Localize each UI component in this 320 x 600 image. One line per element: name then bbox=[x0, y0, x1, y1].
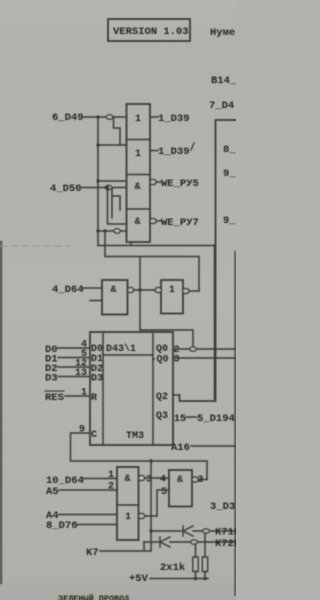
vertical bus x98 bbox=[97, 117, 99, 246]
svg-text:K7: K7 bbox=[86, 547, 99, 559]
wire 6_D49 to gate1 bbox=[84, 116, 127, 118]
scan edge line left bbox=[0, 242, 2, 583]
wire A5 pin2 bbox=[59, 489, 117, 491]
svg-text:B14_: B14_ bbox=[211, 75, 236, 87]
wire D2 pin12 bbox=[58, 366, 90, 368]
junction dot r1 rail bbox=[194, 577, 198, 581]
svg-text:&: & bbox=[135, 182, 141, 193]
wire NOT out to pin5 bbox=[145, 490, 169, 516]
wire 4_D50 to gate3 input b bbox=[82, 187, 127, 189]
svg-text:&: & bbox=[177, 475, 183, 486]
svg-text:C: C bbox=[91, 430, 97, 441]
svg-text:9_: 9_ bbox=[223, 168, 236, 180]
svg-text:K72Б: K72Б bbox=[215, 538, 236, 550]
svg-text:3: 3 bbox=[174, 355, 180, 366]
branch wire to gate4 input a bbox=[108, 188, 127, 225]
junction dot gate3 bbox=[96, 179, 99, 182]
connector ellipse on K72 wire bbox=[191, 540, 198, 544]
svg-text:2x1k: 2x1k bbox=[160, 562, 185, 574]
connector ellipse on 4_D50 wire bbox=[105, 185, 112, 189]
bottom AND output bubble bbox=[138, 475, 144, 480]
wire K7 to K72 line bbox=[100, 542, 151, 551]
connector ellipse on Q0 wire bbox=[190, 347, 197, 351]
wire under stack to right vertical bbox=[98, 245, 215, 247]
junction dot 4_D50 branch bbox=[106, 186, 109, 189]
junction dot r2 rail bbox=[203, 577, 207, 581]
latch NAND input b stub bbox=[90, 300, 102, 302]
NOT output bubble bottom bbox=[138, 513, 144, 518]
svg-text:Q0: Q0 bbox=[156, 344, 168, 355]
fold dashed line bbox=[0, 245, 70, 247]
gate4 output bubble bbox=[150, 218, 156, 223]
svg-text:5_D194: 5_D194 bbox=[197, 413, 235, 425]
long vertical wire right bbox=[214, 246, 216, 400]
svg-text:-Q0: -Q0 bbox=[151, 355, 169, 366]
diode D2 bbox=[160, 537, 170, 547]
wire gate4 input b bbox=[98, 230, 127, 232]
svg-text:VERSION 1.03: VERSION 1.03 bbox=[113, 26, 189, 38]
junction dot C net bbox=[149, 459, 152, 462]
wire 8_D76 to NOT cell bbox=[77, 524, 117, 526]
junction dot K71 start bbox=[149, 529, 152, 532]
+5V rail bbox=[150, 578, 208, 580]
svg-text:A16: A16 bbox=[171, 442, 190, 454]
wire jog gate3 to gate4 bbox=[112, 188, 120, 219]
paper background bbox=[0, 0, 236, 600]
junction dot on latch wire bbox=[138, 288, 141, 291]
svg-text:&: & bbox=[135, 217, 141, 228]
branch from C net down to K71 line bbox=[150, 461, 152, 551]
svg-text:ТМ3: ТМ3 bbox=[126, 431, 144, 442]
wire gate2 input bbox=[98, 144, 127, 146]
latch NOT input bubble bbox=[155, 287, 161, 292]
svg-text:R: R bbox=[91, 393, 97, 404]
wire C pin9 from below-left bbox=[71, 433, 208, 480]
svg-text:1: 1 bbox=[169, 285, 175, 296]
wire D1 pin5 bbox=[58, 357, 90, 359]
junction dot gate2 bbox=[96, 143, 99, 146]
svg-text:9: 9 bbox=[79, 425, 85, 436]
wire A16 to right edge bbox=[191, 445, 236, 447]
junction dot 6_D49/bus bbox=[96, 115, 99, 118]
svg-text:4_D50: 4_D50 bbox=[50, 183, 82, 195]
svg-text:D3: D3 bbox=[91, 374, 103, 385]
junction dot gate4 bbox=[96, 229, 99, 232]
latch feedback top wire bbox=[105, 231, 199, 291]
svg-text:A5: A5 bbox=[46, 486, 59, 498]
svg-text:9_: 9_ bbox=[223, 215, 236, 227]
gate3 output bubble bbox=[150, 179, 156, 184]
TM3 designator divider bbox=[103, 332, 153, 445]
gate IC D38 stack box bbox=[127, 104, 151, 242]
output wire gate4 bbox=[156, 220, 161, 222]
output wire gate3 bbox=[156, 181, 161, 183]
right AND output wire bbox=[198, 479, 207, 481]
latch NOT output wire to feedback bbox=[189, 290, 199, 292]
connector ellipse on 6_D49 wire bbox=[106, 115, 113, 119]
connector ellipse on gate4 input wire bbox=[114, 229, 121, 233]
svg-text:Нуме: Нуме bbox=[210, 27, 235, 39]
svg-text:2: 2 bbox=[108, 482, 114, 493]
diode D1 bbox=[183, 526, 193, 536]
svg-text:5: 5 bbox=[161, 487, 167, 498]
svg-text:1: 1 bbox=[135, 149, 141, 160]
wire 10_D64 pin1 bbox=[83, 478, 117, 480]
svg-text:1: 1 bbox=[81, 388, 87, 399]
svg-text:3_D3: 3_D3 bbox=[210, 501, 235, 513]
TM3 left column divider bbox=[102, 332, 104, 445]
connector ellipse on K71 wire bbox=[203, 529, 210, 533]
svg-text:1: 1 bbox=[135, 114, 141, 125]
svg-text:8_D76: 8_D76 bbox=[46, 520, 78, 532]
latch NOT output bubble bbox=[183, 288, 189, 293]
right AND box bbox=[169, 470, 192, 507]
svg-text:Q2: Q2 bbox=[156, 392, 168, 403]
wire 4_D64 to latch bbox=[83, 287, 102, 289]
svg-text:&: & bbox=[125, 474, 131, 485]
svg-text:6_D49: 6_D49 bbox=[52, 112, 84, 124]
svg-text:15: 15 bbox=[174, 414, 186, 425]
svg-text:ЗЕЛЕНЫЙ ПРОВОД: ЗЕЛЕНЫЙ ПРОВОД bbox=[58, 593, 129, 600]
K72 wire bbox=[144, 541, 236, 543]
svg-text:4: 4 bbox=[160, 475, 166, 486]
Q2 wire to long vertical bbox=[173, 394, 180, 396]
svg-text:D3: D3 bbox=[45, 373, 58, 385]
latch NAND output bubble bbox=[127, 287, 133, 292]
wire jog below 6_D49 bbox=[114, 117, 121, 145]
output wire gate2 bbox=[150, 150, 158, 152]
wire RES pin1 bbox=[65, 395, 90, 397]
svg-text:+5V: +5V bbox=[129, 573, 149, 585]
svg-text:1: 1 bbox=[108, 470, 114, 481]
svg-text:Q3: Q3 bbox=[156, 411, 168, 422]
svg-text:8_: 8_ bbox=[223, 144, 236, 156]
latch NAND box bbox=[102, 280, 128, 315]
wire gate3 input a bbox=[98, 180, 127, 182]
svg-text:WE_РУ7: WE_РУ7 bbox=[161, 217, 199, 229]
svg-text:7_D4: 7_D4 bbox=[209, 100, 234, 112]
prime mark bbox=[191, 143, 194, 150]
wire D0 pin4 bbox=[58, 347, 90, 349]
svg-text:13: 13 bbox=[75, 368, 87, 379]
stub from stack bottom bbox=[130, 242, 132, 246]
bottom IC divider bbox=[117, 504, 139, 506]
svg-text:3: 3 bbox=[198, 475, 204, 486]
version label box bbox=[108, 19, 190, 41]
bottom AND/NOT IC box bbox=[117, 467, 139, 540]
junction dot feedback left bbox=[103, 229, 106, 232]
svg-text:D43\1: D43\1 bbox=[106, 343, 136, 355]
svg-text:RES: RES bbox=[45, 392, 64, 404]
K71 wire bbox=[151, 530, 236, 532]
svg-text:4_D64: 4_D64 bbox=[52, 284, 84, 296]
wire D3 pin13 bbox=[58, 376, 90, 378]
wire AND3 to AND4 bbox=[145, 477, 169, 479]
svg-text:K71Б: K71Б bbox=[215, 527, 236, 539]
branch from latch node up bbox=[139, 257, 141, 291]
svg-text:1: 1 bbox=[125, 512, 131, 523]
svg-text:1_D39: 1_D39 bbox=[158, 113, 190, 125]
gate cell dividers bbox=[127, 140, 151, 210]
svg-text:1_D39: 1_D39 bbox=[158, 146, 190, 158]
resistor R1 bbox=[193, 557, 198, 572]
svg-text:&: & bbox=[111, 285, 117, 296]
svg-text:WE_РУ5: WE_РУ5 bbox=[161, 178, 199, 190]
scan edge line right bbox=[234, 252, 236, 595]
branch from latch node down to Q0 bbox=[140, 290, 193, 346]
big IC box right (cut at edge) bbox=[180, 120, 237, 401]
resistor R2 bbox=[202, 557, 207, 572]
register TM3 box bbox=[90, 332, 173, 445]
latch NOT box bbox=[161, 280, 183, 314]
output wire gate1 bbox=[150, 116, 158, 118]
wire NAND to NOT bbox=[134, 289, 156, 291]
wire A4 to NOT cell bbox=[59, 514, 117, 516]
right AND output bubble bbox=[192, 477, 198, 482]
